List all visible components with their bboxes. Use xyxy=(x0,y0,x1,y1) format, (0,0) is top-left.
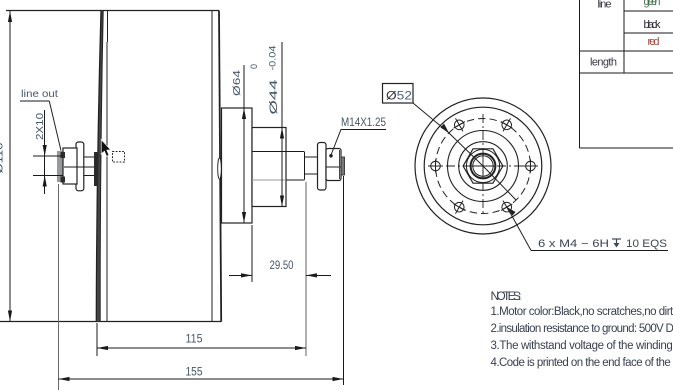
notes xyxy=(491,289,673,369)
center lines xyxy=(429,114,537,216)
svg-text:red: red xyxy=(648,36,660,48)
shaft end flange xyxy=(318,143,327,191)
svg-text:NOTES:: NOTES: xyxy=(491,289,522,303)
label line out xyxy=(20,88,61,151)
svg-text:-0.04: -0.04 xyxy=(268,46,279,71)
left bearing plate xyxy=(94,152,98,186)
svg-text:155: 155 xyxy=(186,367,203,379)
shaft end washer xyxy=(341,157,345,175)
thread minor circle xyxy=(473,156,493,176)
hex nut xyxy=(463,149,503,183)
dimension 155 xyxy=(59,176,344,390)
bolt circle (dashed) xyxy=(436,119,531,214)
svg-text:6 x M4 − 6H: 6 x M4 − 6H xyxy=(538,238,609,250)
dimension D110 (left) xyxy=(0,11,12,322)
dimension 2X10 xyxy=(33,110,63,194)
svg-text:2.insulation resistance to gro: 2.insulation resistance to ground: 500V … xyxy=(491,323,673,335)
6xM4 leader xyxy=(507,207,668,250)
svg-text:0: 0 xyxy=(249,64,259,69)
dimension 29.50 xyxy=(229,182,331,356)
svg-text:line: line xyxy=(598,0,612,11)
svg-text:3.The withstand voltage of the: 3.The withstand voltage of the winding t… xyxy=(491,340,673,352)
dimension D64 xyxy=(231,65,246,223)
boss circle xyxy=(448,131,519,202)
right shaft step Ø64 xyxy=(222,108,253,223)
outer rim circle xyxy=(415,98,551,234)
svg-text:10 EQS: 10 EQS xyxy=(626,238,667,250)
svg-text:M14X1.25: M14X1.25 xyxy=(341,115,386,129)
pick box xyxy=(113,152,125,163)
bolt holes (6x M4) xyxy=(428,115,538,217)
wire color table xyxy=(579,0,673,148)
svg-text:2X10: 2X10 xyxy=(34,113,46,140)
svg-text:4.Code is printed on the end f: 4.Code is printed on the end face of the… xyxy=(491,357,673,369)
D52 boxed label xyxy=(383,84,414,104)
svg-text:green: green xyxy=(644,0,661,8)
shaft Ø16 section xyxy=(252,152,318,181)
svg-text:115: 115 xyxy=(186,334,203,346)
svg-text:black: black xyxy=(644,19,662,31)
left shaft stub lines xyxy=(64,157,95,176)
dimension D44 with tolerance xyxy=(249,42,284,207)
svg-text:Ø52: Ø52 xyxy=(386,89,412,103)
svg-text:1.Motor color:Black,no scratch: 1.Motor color:Black,no scratches,no dirt… xyxy=(491,306,673,318)
svg-text:Ø44: Ø44 xyxy=(268,80,280,115)
svg-text:29.50: 29.50 xyxy=(270,260,294,272)
motor drum body (side view) xyxy=(0,11,222,322)
mouse cursor xyxy=(101,140,111,157)
hub circle xyxy=(459,142,508,191)
svg-text:line out: line out xyxy=(21,88,58,100)
svg-text:Ø64: Ø64 xyxy=(231,70,243,96)
dimension 115 xyxy=(97,323,306,356)
axle hole ellipse on right face xyxy=(218,158,222,179)
left wire-out boss (spool) xyxy=(57,142,84,191)
shaft end nut xyxy=(326,149,341,181)
svg-text:length: length xyxy=(590,57,617,69)
label M14X1.25 xyxy=(329,115,386,158)
svg-text:Ø110: Ø110 xyxy=(0,143,6,174)
thread major circle xyxy=(471,154,496,179)
right shaft step Ø44 xyxy=(252,128,286,207)
front view xyxy=(415,98,551,234)
D52 leader line through center xyxy=(413,103,516,200)
nut inscribed circle xyxy=(466,149,499,182)
inner rim circle xyxy=(424,107,542,225)
